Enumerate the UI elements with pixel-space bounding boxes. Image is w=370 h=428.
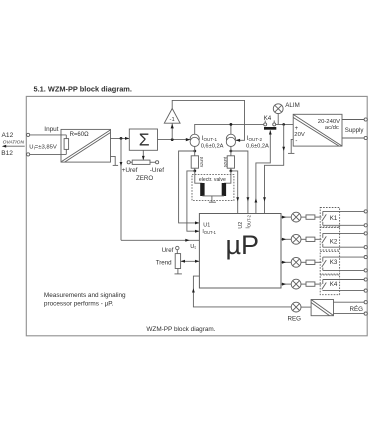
- label 0,6 0,2A (1): [201, 143, 224, 149]
- direction arrow left: [2, 145, 25, 148]
- wire uP to REG line: [192, 276, 291, 307]
- junction IOUT-2 tap: [230, 170, 233, 173]
- svg-text:B12: B12: [1, 150, 13, 157]
- wires K3 to terminals: [323, 257, 364, 270]
- label Trend: [156, 259, 172, 266]
- wires K4 to terminals: [323, 280, 364, 291]
- terminal Uref: [176, 246, 179, 249]
- wire Trend to uP bidirectional: [181, 260, 200, 263]
- svg-text:U1: U1: [203, 222, 210, 228]
- terminal B12: [27, 153, 30, 156]
- resistor K1 row: [301, 215, 322, 219]
- relay K1 dashed box: [320, 208, 339, 228]
- label REG: [288, 315, 302, 322]
- relay contact K2: [322, 233, 338, 247]
- terminal K4 a: [364, 278, 367, 281]
- svg-text:K3: K3: [330, 259, 338, 266]
- wire uP drives K4: [255, 130, 272, 213]
- wire A12 to input resistor: [30, 134, 67, 136]
- label IOUT-1 pin: [202, 229, 216, 235]
- output row K1: wire from uP: [281, 216, 291, 219]
- wires REG outputs: [334, 302, 365, 313]
- label +Uref: [122, 167, 138, 174]
- terminal supply 2: [364, 136, 367, 139]
- resistor R=60 ohm: [64, 135, 69, 155]
- label plus: [295, 126, 299, 132]
- label IOUT-2 pin rotated: [246, 214, 252, 228]
- current source IOUT-2: [226, 134, 235, 146]
- inverter -1 triangle: [164, 109, 180, 140]
- terminal supply 1: [364, 118, 367, 121]
- resistor K4 row: [301, 282, 322, 286]
- svg-text:-Uref: -Uref: [150, 167, 164, 174]
- junction rail at IOUT-2: [230, 123, 233, 126]
- terminal K1 a: [364, 210, 367, 213]
- label Ui=3,85V: [29, 145, 57, 151]
- label 20-240V: [318, 119, 340, 125]
- label minus: [295, 139, 297, 145]
- svg-text:electr. valve: electr. valve: [199, 177, 226, 183]
- label szunt 1: [199, 156, 204, 167]
- wires K1 to terminals: [323, 211, 364, 225]
- lamp REG: [291, 302, 301, 312]
- power supply 20-240V box: [293, 114, 342, 146]
- terminal REG b: [364, 312, 367, 315]
- svg-text:0,6±0,2A: 0,6±0,2A: [201, 143, 224, 149]
- terminal K3 a: [364, 256, 367, 259]
- lamp ALIM: [273, 104, 283, 125]
- label IOUT-1: [202, 136, 218, 142]
- ground at supply: [288, 139, 294, 153]
- svg-text:szunt: szunt: [222, 156, 227, 167]
- wire IOUT-2 tap to uP: [231, 171, 239, 214]
- svg-text:OVATION: OVATION: [3, 140, 25, 146]
- svg-text:K4: K4: [330, 281, 338, 288]
- wire -1 loop to IOUT-2 source: [172, 100, 244, 141]
- svg-text:Measurements and signaling: Measurements and signaling: [44, 292, 126, 299]
- svg-text:µP: µP: [226, 230, 260, 260]
- junction sigma output: [171, 138, 174, 141]
- note text: [44, 292, 126, 307]
- summation block sigma: [129, 129, 157, 150]
- wire U2 tap to uP: [231, 151, 249, 214]
- relay K3 dashed box: [320, 252, 339, 275]
- wire supply output 1: [342, 119, 364, 121]
- label ac/dc: [325, 125, 339, 131]
- wire B12 to input resistor: [30, 153, 67, 155]
- svg-text:U2: U2: [238, 222, 244, 229]
- svg-text:RÉG: RÉG: [350, 306, 364, 313]
- label Uref: [162, 247, 174, 254]
- terminal K2 a: [364, 232, 367, 235]
- label U1: [203, 222, 210, 228]
- microprocessor uP box: [199, 214, 281, 289]
- terminal -Uref: [156, 161, 159, 164]
- svg-text:IOUT-2: IOUT-2: [247, 136, 263, 142]
- ground at input box: [111, 156, 119, 165]
- svg-text:Supply: Supply: [345, 127, 365, 134]
- terminal +Uref: [127, 161, 130, 164]
- svg-text:processor performs - µP.: processor performs - µP.: [44, 300, 114, 307]
- label R=60 ohm: [70, 132, 90, 138]
- caption: [146, 326, 215, 333]
- relay contact K4 out: [322, 280, 338, 291]
- output row K2: wire from uP: [281, 238, 291, 241]
- output row K3: wire from uP: [281, 261, 291, 264]
- relay contact K1: [322, 211, 338, 225]
- wire supply rail K4: [195, 124, 264, 134]
- lamp K4: [291, 279, 301, 289]
- wire U1 tap to uP: [179, 151, 200, 224]
- svg-text:ZERO: ZERO: [136, 175, 153, 182]
- wire Ut sense down and to uP: [120, 138, 200, 241]
- label OVATION: [3, 140, 25, 146]
- svg-text:Trend: Trend: [156, 259, 172, 266]
- svg-text:R=60Ω: R=60Ω: [70, 132, 90, 138]
- label 20V: [294, 132, 305, 138]
- terminal REG a: [364, 301, 367, 304]
- lamp K1: [291, 212, 301, 222]
- junction U1 tap: [193, 150, 196, 153]
- junction IOUT-1 tap: [193, 170, 196, 173]
- svg-text:0,6±0,2A: 0,6±0,2A: [246, 144, 269, 150]
- ground at valve: [209, 196, 216, 202]
- svg-text:UI=±3,85V: UI=±3,85V: [29, 145, 57, 151]
- lamp K3: [291, 257, 301, 267]
- shunt resistor 2: [227, 146, 234, 171]
- label IOUT-2: [247, 136, 263, 142]
- input isolation converter box: [61, 129, 111, 162]
- svg-text:5.1. WZM-PP block diagram.: 5.1. WZM-PP block diagram.: [34, 84, 132, 93]
- junction rail to monitor: [282, 123, 285, 126]
- terminal K4 b: [364, 289, 367, 292]
- junction U2 tap: [230, 150, 233, 153]
- node B12 label: [1, 150, 13, 157]
- output row K4: wire from uP: [281, 283, 291, 286]
- svg-text:K1: K1: [330, 215, 338, 222]
- label ZERO: [136, 175, 153, 182]
- wire sigma to IOUT-1 source: [158, 138, 191, 141]
- wires K2 to terminals: [323, 233, 364, 247]
- svg-text:+Uref: +Uref: [122, 167, 138, 174]
- REG driver box: [311, 300, 333, 316]
- potentiometer Trend: [175, 250, 182, 274]
- svg-text:IOUT-2: IOUT-2: [246, 214, 252, 228]
- wire K4 to supply: [276, 123, 293, 125]
- svg-text:szunt: szunt: [199, 156, 204, 167]
- shunt resistor 1: [191, 146, 198, 171]
- svg-text:-1: -1: [170, 117, 175, 123]
- wire REG lamp to driver: [301, 306, 311, 308]
- relay contact K4: [264, 121, 277, 130]
- label U2 rotated: [238, 222, 244, 229]
- svg-text:Uref: Uref: [162, 247, 174, 254]
- wire input box to sigma: [111, 137, 130, 140]
- label uP: [226, 230, 260, 260]
- relay K4 dashed box: [320, 275, 339, 295]
- svg-text:K2: K2: [330, 238, 338, 245]
- label 0,6 0,2A (2): [246, 144, 269, 150]
- wire shunt1 to valve: [195, 171, 203, 183]
- svg-text:20V: 20V: [294, 132, 305, 138]
- svg-text:Input: Input: [44, 126, 58, 133]
- wire sigma to ZERO pot: [142, 150, 145, 160]
- label K4 contact: [264, 115, 272, 122]
- svg-text:ac/dc: ac/dc: [325, 125, 339, 131]
- potentiometer ZERO: [130, 160, 155, 164]
- valve coil bars: [200, 183, 226, 196]
- resistor K2 row: [301, 237, 322, 241]
- relay K2 dashed box: [320, 227, 339, 250]
- label szunt 2: [222, 156, 227, 167]
- junction input/Ut sense: [120, 137, 123, 140]
- svg-text:IOUT-1: IOUT-1: [202, 229, 216, 235]
- terminal K1 b: [364, 224, 367, 227]
- svg-text:WZM-PP block diagram.: WZM-PP block diagram.: [146, 326, 215, 333]
- label Input: [44, 126, 58, 133]
- wire shunt2 to valve: [224, 171, 231, 183]
- wire 20V monitor to uP: [263, 124, 285, 213]
- lamp K2: [291, 234, 301, 244]
- wire supply output 2: [342, 137, 364, 139]
- terminal A12: [27, 133, 30, 136]
- resistor K3 row: [301, 260, 322, 264]
- wire IOUT-1 tap to uP: [187, 171, 199, 233]
- electr. valve dashed box: [192, 174, 234, 200]
- node A12 label: [2, 132, 14, 139]
- svg-text:Ut: Ut: [190, 244, 196, 250]
- border frame of diagram: [26, 96, 367, 335]
- label Supply: [345, 127, 365, 134]
- relay contact K3: [322, 257, 338, 270]
- terminal K3 b: [364, 269, 367, 272]
- svg-text:IOUT-1: IOUT-1: [202, 136, 218, 142]
- label ALIM: [285, 102, 299, 109]
- title: [34, 84, 132, 93]
- label -Uref: [150, 167, 164, 174]
- svg-text:A12: A12: [2, 132, 14, 139]
- svg-text:-: -: [295, 139, 297, 145]
- svg-text:ALIM: ALIM: [285, 102, 299, 109]
- svg-text:Σ: Σ: [139, 130, 150, 150]
- terminal K2 b: [364, 246, 367, 249]
- current source IOUT-1: [190, 134, 199, 146]
- label Ut: [190, 244, 196, 250]
- label REG accent: [350, 306, 364, 313]
- svg-text:REG: REG: [288, 315, 302, 322]
- label electr. valve: [199, 177, 226, 183]
